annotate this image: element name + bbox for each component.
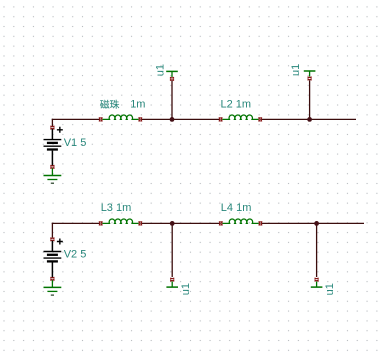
- inductor L2: [219, 115, 262, 122]
- inductor L3: [99, 219, 142, 226]
- wire junction B riser: [309, 80, 311, 119]
- svg-text:u1: u1: [290, 64, 302, 76]
- node junction D: [314, 221, 319, 226]
- svg-text:u1: u1: [180, 283, 192, 295]
- node junction B: [307, 117, 312, 122]
- ground under V1: [44, 168, 62, 183]
- svg-text:V2 5: V2 5: [64, 249, 87, 261]
- svg-text:u1: u1: [155, 64, 167, 76]
- inductor FB1 磁珠: [99, 115, 142, 122]
- wire top net: L2 to junction B and right end: [260, 118, 356, 120]
- wire bottom net: between L3 and L4: [140, 222, 221, 224]
- battery V2: [44, 238, 63, 281]
- wire bottom net: L4 to junction D and right end: [260, 222, 364, 224]
- svg-text:L3 1m: L3 1m: [101, 202, 132, 214]
- wire junction C dropper: [171, 223, 173, 277]
- capacitor terminal C1: [166, 71, 178, 80]
- capacitor terminal C3: [166, 278, 178, 287]
- capacitor terminal C2: [304, 71, 316, 80]
- label 磁珠 1m: [100, 100, 119, 109]
- wire bottom net: battery V2 to L3: [52, 223, 101, 238]
- inductor L4: [219, 219, 262, 226]
- wire junction D dropper: [316, 223, 318, 277]
- node junction C: [170, 221, 175, 226]
- wire top net: between inductors: [140, 118, 220, 120]
- node junction A: [170, 117, 175, 122]
- svg-text:1m: 1m: [130, 98, 145, 110]
- wire top net: battery V1 to first inductor: [52, 119, 101, 127]
- wire junction A riser: [171, 81, 173, 120]
- svg-text:u1: u1: [324, 283, 336, 295]
- ground under V2: [44, 280, 62, 295]
- capacitor terminal C4: [311, 278, 323, 287]
- svg-text:L2 1m: L2 1m: [221, 98, 252, 110]
- svg-text:L4 1m: L4 1m: [221, 202, 252, 214]
- battery V1: [44, 126, 63, 169]
- svg-text:V1 5: V1 5: [64, 137, 87, 149]
